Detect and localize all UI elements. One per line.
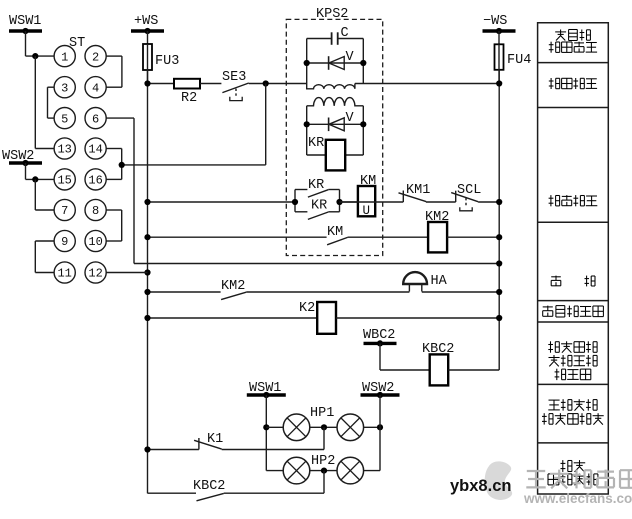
svg-text:WSW2: WSW2	[2, 149, 34, 164]
svg-text:SCL: SCL	[457, 183, 481, 198]
svg-text:KM: KM	[360, 174, 376, 189]
svg-text:K1: K1	[207, 432, 223, 447]
svg-text:K2: K2	[299, 301, 315, 316]
svg-text:8: 8	[92, 204, 99, 218]
svg-text:14: 14	[88, 143, 102, 157]
svg-text:FU4: FU4	[507, 53, 531, 68]
svg-text:KR: KR	[311, 199, 327, 214]
svg-text:KPS2: KPS2	[316, 7, 348, 22]
svg-text:13: 13	[57, 143, 71, 157]
svg-text:15: 15	[57, 174, 71, 188]
svg-text:9: 9	[61, 235, 68, 249]
svg-text:HA: HA	[431, 274, 448, 289]
svg-text:KM1: KM1	[406, 183, 430, 198]
svg-text:R2: R2	[181, 91, 197, 106]
svg-text:FU3: FU3	[155, 54, 179, 69]
svg-text:C: C	[341, 26, 349, 41]
svg-text:−WS: −WS	[483, 14, 507, 29]
svg-text:ybx8.cn: ybx8.cn	[450, 477, 511, 495]
svg-text:KM: KM	[327, 225, 343, 240]
svg-text:HP2: HP2	[311, 454, 335, 469]
svg-text:5: 5	[61, 112, 68, 126]
svg-text:KR: KR	[308, 136, 324, 151]
svg-text:12: 12	[88, 267, 102, 281]
svg-text:V: V	[346, 111, 355, 126]
svg-text:3: 3	[61, 81, 68, 95]
svg-text:7: 7	[61, 204, 68, 218]
svg-text:1: 1	[61, 50, 68, 64]
svg-text:10: 10	[88, 235, 102, 249]
svg-text:2: 2	[92, 50, 99, 64]
svg-text:+WS: +WS	[134, 14, 158, 29]
svg-text:KR: KR	[308, 178, 324, 193]
svg-text:WSW1: WSW1	[9, 14, 41, 29]
svg-text:www.elecfans.com: www.elecfans.com	[523, 491, 632, 506]
svg-text:4: 4	[92, 81, 99, 95]
svg-text:U: U	[363, 204, 371, 218]
svg-text:11: 11	[57, 267, 71, 281]
svg-text:KM2: KM2	[221, 279, 245, 294]
svg-text:16: 16	[88, 174, 102, 188]
svg-text:HP1: HP1	[310, 406, 334, 421]
svg-text:V: V	[346, 50, 355, 65]
svg-text:KBC2: KBC2	[193, 479, 225, 494]
svg-text:6: 6	[92, 112, 99, 126]
svg-text:SE3: SE3	[222, 70, 246, 85]
